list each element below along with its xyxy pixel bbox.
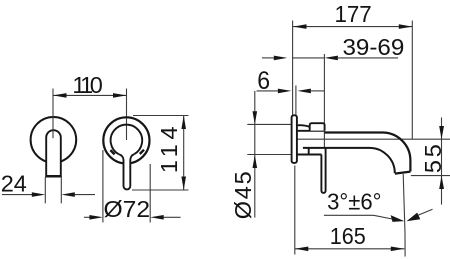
svg-text:39-69: 39-69 (342, 34, 404, 61)
svg-text:Ø45: Ø45 (230, 169, 256, 219)
svg-text:110: 110 (72, 72, 102, 98)
svg-text:Ø72: Ø72 (103, 197, 150, 223)
svg-text:6: 6 (257, 67, 270, 95)
svg-text:177: 177 (334, 0, 371, 27)
svg-text:114: 114 (156, 122, 182, 173)
svg-text:3°±6°: 3°±6° (327, 188, 381, 215)
svg-text:55: 55 (420, 141, 446, 173)
svg-text:165: 165 (330, 223, 366, 249)
svg-text:24: 24 (1, 170, 27, 196)
